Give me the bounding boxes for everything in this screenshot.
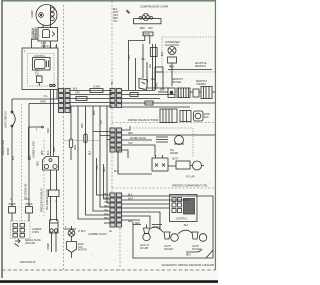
svg-text:CONDENSER: CONDENSER	[165, 42, 180, 44]
svg-text:ORG: ORG	[75, 145, 77, 150]
svg-text:CTL: CTL	[35, 74, 40, 76]
svg-text:BLK: BLK	[170, 67, 175, 69]
svg-text:FREEZER COMPARTMENT CTRL: FREEZER COMPARTMENT CTRL	[172, 185, 208, 188]
svg-text:5H1: 5H1	[112, 80, 114, 85]
svg-text:RED: RED	[128, 221, 133, 223]
svg-text:SOCKET: SOCKET	[192, 249, 202, 251]
svg-text:BLK: BLK	[160, 90, 165, 92]
svg-text:ADAPTIVE: ADAPTIVE	[195, 62, 207, 65]
svg-text:WHT: WHT	[42, 149, 44, 155]
svg-text:FRZ DOOR SW: FRZ DOOR SW	[26, 183, 28, 200]
svg-text:SCHEMATIC WIRING DIAGRAM 12642: SCHEMATIC WIRING DIAGRAM 12642105	[162, 263, 215, 267]
svg-text:WHT: WHT	[82, 122, 84, 128]
svg-text:FRESH FOOD: FRESH FOOD	[3, 140, 5, 155]
svg-text:DEF: DEF	[151, 79, 156, 81]
svg-text:8-2 A: 8-2 A	[41, 42, 47, 45]
svg-text:MOTOR: MOTOR	[78, 250, 87, 252]
svg-text:LT BLU: LT BLU	[153, 227, 161, 229]
svg-text:GROUND AT: GROUND AT	[20, 260, 36, 264]
svg-text:WHT: WHT	[94, 109, 96, 115]
svg-text:FZ LMP: FZ LMP	[140, 248, 149, 250]
svg-text:GROUND: GROUND	[25, 243, 36, 245]
svg-text:O.L.: O.L.	[44, 94, 49, 98]
svg-text:CONN: CONN	[32, 232, 39, 234]
svg-text:WATER VALVE SYSTEM: WATER VALVE SYSTEM	[128, 118, 159, 122]
svg-text:DOOR: DOOR	[8, 148, 10, 155]
svg-text:DEFROST: DEFROST	[172, 79, 184, 81]
svg-text:WATER VALVE: WATER VALVE	[130, 137, 146, 140]
svg-text:WHT: WHT	[113, 12, 119, 14]
svg-text:BLK: BLK	[48, 150, 50, 155]
svg-text:BLK: BLK	[128, 195, 133, 197]
svg-text:ORG: ORG	[157, 83, 159, 88]
svg-text:BRN: BRN	[104, 218, 109, 220]
svg-text:WHT: WHT	[104, 198, 110, 200]
svg-text:RED: RED	[104, 206, 109, 208]
svg-text:COMP: COMP	[48, 243, 50, 250]
svg-text:RED: RED	[140, 28, 145, 30]
svg-text:ORG: ORG	[104, 202, 109, 204]
svg-text:BLK: BLK	[113, 9, 118, 11]
svg-text:EVAP: EVAP	[78, 243, 84, 246]
svg-text:MAKER: MAKER	[170, 152, 179, 155]
svg-text:BLK: BLK	[114, 171, 119, 173]
svg-text:ORG: ORG	[113, 15, 118, 17]
svg-text:YEL FREEZER FAN: YEL FREEZER FAN	[46, 189, 49, 210]
svg-text:COMP: COMP	[30, 10, 34, 18]
svg-text:AU: AU	[109, 230, 113, 233]
svg-text:BLK: BLK	[184, 225, 189, 227]
svg-text:CONN: CONN	[144, 34, 151, 36]
svg-text:RED: RED	[38, 161, 40, 166]
svg-text:BLK: BLK	[73, 89, 78, 91]
svg-text:FAN: FAN	[204, 116, 209, 119]
svg-text:TAN: TAN	[128, 142, 133, 145]
svg-text:ICE: ICE	[170, 150, 174, 152]
svg-text:TAN: TAN	[96, 165, 99, 170]
svg-text:AUTO LT: AUTO LT	[140, 244, 150, 247]
svg-text:FREEZER FAN DELAY: FREEZER FAN DELAY	[41, 188, 44, 212]
svg-text:CONN: CONN	[93, 87, 100, 89]
svg-text:ORG: ORG	[75, 93, 80, 95]
svg-text:PTC RELAY: PTC RELAY	[32, 27, 35, 40]
svg-text:SERIAL PLATE: SERIAL PLATE	[25, 239, 41, 242]
svg-text:BLK: BLK	[149, 28, 154, 30]
svg-text:ADJ: ADJ	[141, 58, 145, 61]
svg-text:CABINET LIGHT: CABINET LIGHT	[33, 140, 36, 158]
svg-text:LT BLU: LT BLU	[78, 231, 86, 233]
svg-text:WHT: WHT	[30, 154, 32, 160]
svg-text:TAN: TAN	[100, 120, 103, 125]
svg-text:RED: RED	[113, 18, 118, 20]
svg-text:WHT: WHT	[128, 199, 134, 201]
svg-text:EVAP: EVAP	[204, 113, 210, 116]
svg-text:BLK: BLK	[13, 155, 15, 160]
svg-text:RED: RED	[128, 133, 133, 135]
svg-text:THERMO: THERMO	[196, 84, 206, 86]
svg-text:LIGHT: LIGHT	[192, 246, 199, 248]
svg-text:TAN: TAN	[128, 55, 131, 60]
svg-text:BLK: BLK	[90, 150, 92, 155]
svg-text:RED: RED	[104, 167, 106, 172]
svg-text:BRN: BRN	[186, 255, 191, 257]
svg-text:BLK: BLK	[104, 194, 109, 196]
svg-text:COMPRESSOR COMP: COMPRESSOR COMP	[140, 5, 168, 9]
svg-text:YEL: YEL	[150, 63, 152, 68]
svg-text:BLK: BLK	[162, 51, 164, 56]
svg-text:CONTROL: CONTROL	[34, 56, 46, 58]
svg-text:DEFROST: DEFROST	[195, 66, 207, 68]
svg-text:YEL: YEL	[104, 210, 109, 212]
svg-text:LIGHT SWITCH: LIGHT SWITCH	[6, 111, 8, 128]
svg-text:AUTO: AUTO	[172, 158, 179, 161]
svg-text:ORG: ORG	[40, 100, 46, 104]
svg-text:RED: RED	[54, 147, 56, 152]
svg-text:CONTROL: CONTROL	[176, 219, 188, 221]
svg-text:OVERLOAD: OVERLOAD	[34, 27, 37, 40]
svg-text:JUMPER: JUMPER	[32, 229, 42, 231]
svg-text:(JUMPER CONN): (JUMPER CONN)	[88, 234, 107, 236]
svg-text:ORG: ORG	[48, 128, 50, 133]
svg-text:TAN: TAN	[104, 213, 109, 216]
svg-text:DEFROST: DEFROST	[196, 81, 208, 83]
svg-text:FAN MOTOR: FAN MOTOR	[165, 44, 179, 47]
svg-text:AT U AR: AT U AR	[186, 176, 195, 179]
svg-text:LIGHT: LIGHT	[164, 246, 171, 248]
svg-text:FAN: FAN	[78, 246, 83, 249]
svg-text:YEL: YEL	[113, 21, 118, 23]
